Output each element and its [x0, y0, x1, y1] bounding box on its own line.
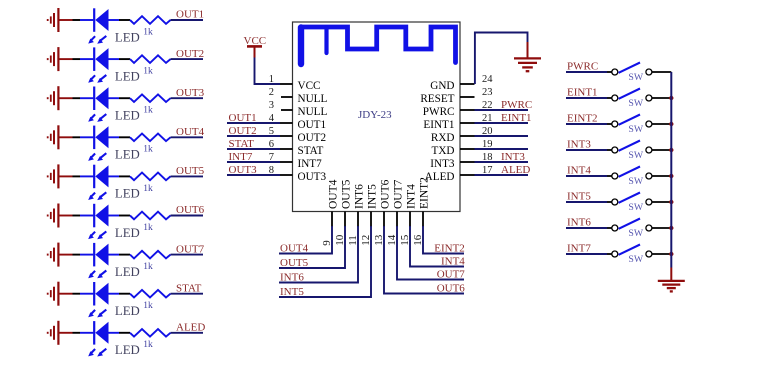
pin 7 INT7	[269, 152, 322, 170]
ground row 7	[48, 243, 59, 267]
wire resistor to net label OUT1	[171, 19, 204, 21]
svg-text:PWRC: PWRC	[423, 106, 455, 118]
antenna meander trace	[301, 27, 456, 64]
wire LED to resistor R2	[119, 58, 130, 60]
svg-text:1k: 1k	[143, 106, 153, 116]
wire net INT7 to switch SW8	[566, 253, 612, 255]
svg-text:OUT7: OUT7	[392, 179, 404, 209]
wire ground bus vertical	[670, 72, 672, 268]
svg-text:16: 16	[412, 234, 424, 246]
svg-text:PWRC: PWRC	[501, 99, 532, 111]
svg-text:EINT1: EINT1	[423, 119, 454, 131]
svg-text:LED: LED	[115, 304, 140, 318]
ground row 3	[48, 86, 59, 110]
svg-text:VCC: VCC	[298, 80, 321, 92]
ground row 8	[48, 282, 59, 306]
ground row 2	[48, 47, 59, 71]
wire net INT4 to switch SW5	[566, 175, 612, 177]
svg-text:OUT3: OUT3	[176, 87, 205, 99]
LED D6	[88, 204, 119, 239]
svg-text:LED: LED	[115, 226, 140, 240]
svg-text:SW: SW	[628, 98, 643, 109]
svg-text:INT5: INT5	[366, 184, 378, 209]
wire LED to resistor R7	[119, 254, 130, 256]
wire resistor to net label OUT3	[171, 97, 204, 99]
pin 21 EINT1	[423, 113, 492, 131]
svg-text:OUT1: OUT1	[298, 119, 327, 131]
pin 4 OUT1	[269, 113, 326, 131]
LED D7	[88, 243, 119, 278]
svg-text:1k: 1k	[143, 27, 153, 37]
svg-text:STAT: STAT	[298, 145, 324, 157]
resistor R2 1k	[130, 55, 171, 63]
resistor R6 1k	[130, 212, 171, 220]
wire switch SW1 to bus	[652, 71, 672, 73]
junction dot row 3	[669, 122, 673, 126]
svg-text:INT6: INT6	[280, 272, 304, 284]
svg-text:INT4: INT4	[441, 256, 465, 268]
wire LED to resistor R8	[119, 293, 130, 295]
svg-text:STAT: STAT	[229, 138, 255, 150]
wire net stub pin 17	[475, 174, 529, 176]
svg-text:14: 14	[386, 234, 398, 246]
svg-text:INT7: INT7	[298, 158, 323, 170]
svg-text:INT5: INT5	[567, 190, 591, 202]
switch SW6	[612, 193, 652, 206]
pin 8 OUT3	[269, 165, 327, 183]
svg-text:STAT: STAT	[176, 282, 202, 294]
svg-text:INT4: INT4	[405, 184, 417, 209]
svg-text:INT3: INT3	[567, 138, 591, 150]
svg-text:2: 2	[269, 87, 274, 98]
svg-text:EINT2: EINT2	[418, 177, 430, 209]
pin 17 ALED	[425, 165, 493, 183]
svg-text:LED: LED	[115, 265, 140, 279]
junction dot row 7	[669, 226, 673, 230]
pin 20 RXD	[431, 126, 493, 144]
wire net OUT1 to pin 4	[227, 122, 280, 124]
wire switch SW8 to bus	[652, 253, 672, 255]
pin 19 TXD	[432, 139, 493, 157]
svg-text:OUT1: OUT1	[176, 9, 204, 21]
wire net stub pin 21	[475, 122, 529, 124]
svg-text:OUT1: OUT1	[229, 112, 257, 124]
svg-text:OUT6: OUT6	[379, 179, 391, 209]
wire resistor to net label OUT2	[171, 58, 204, 60]
earth ground bottom right	[658, 268, 685, 292]
svg-text:INT3: INT3	[501, 151, 525, 163]
resistor R5 1k	[130, 173, 171, 181]
resistor R3 1k	[130, 94, 171, 102]
svg-text:1k: 1k	[143, 145, 153, 155]
ground row 5	[48, 164, 59, 188]
svg-text:LED: LED	[115, 109, 140, 123]
svg-text:OUT4: OUT4	[280, 243, 309, 255]
svg-text:INT6: INT6	[567, 216, 591, 228]
junction dot row 4	[669, 148, 673, 152]
LED D8	[88, 282, 119, 317]
pin 3 NULL	[269, 100, 328, 118]
svg-text:LED: LED	[115, 343, 140, 357]
wire pin 11 to net INT6	[279, 226, 358, 283]
pin 6 STAT	[269, 139, 324, 157]
wire net stub pin 22	[475, 109, 529, 111]
svg-text:INT3: INT3	[430, 158, 455, 170]
ground row 4	[48, 125, 59, 149]
svg-text:OUT2: OUT2	[298, 132, 327, 144]
svg-text:ALED: ALED	[501, 164, 530, 176]
svg-text:ALED: ALED	[176, 322, 205, 334]
svg-text:OUT5: OUT5	[340, 179, 352, 209]
svg-text:OUT4: OUT4	[327, 179, 339, 209]
wire switch SW5 to bus	[652, 175, 672, 177]
pin 13 OUT6	[373, 179, 392, 245]
svg-text:OUT6: OUT6	[176, 204, 205, 216]
LED D9	[88, 321, 119, 356]
wire net STAT to pin 6	[227, 148, 280, 150]
svg-text:OUT2: OUT2	[176, 48, 204, 60]
wire net stub pin 20	[475, 135, 529, 137]
resistor R4 1k	[130, 134, 171, 142]
LED D1	[88, 8, 119, 43]
svg-text:OUT4: OUT4	[176, 126, 205, 138]
switch SW5	[612, 167, 652, 180]
svg-text:1k: 1k	[143, 67, 153, 77]
wire net INT3 to switch SW4	[566, 149, 612, 151]
svg-text:23: 23	[482, 87, 493, 98]
wire net INT6 to switch SW7	[566, 227, 612, 229]
wire ground to LED D3	[58, 97, 93, 99]
wire pin 10 to net OUT5	[279, 226, 345, 268]
switch SW7	[612, 219, 652, 232]
wire ground to LED D7	[58, 254, 93, 256]
svg-text:RESET: RESET	[420, 93, 454, 105]
LED D5	[88, 165, 119, 200]
wire ground to LED D4	[58, 136, 93, 138]
pin 14 OUT7	[386, 179, 405, 245]
svg-text:INT6: INT6	[353, 184, 365, 209]
pin 1 VCC	[269, 74, 321, 92]
wire ground to LED D2	[58, 58, 93, 60]
wire pin 13 to net OUT6	[384, 226, 464, 294]
svg-text:PWRC: PWRC	[567, 60, 598, 72]
op IC U1 JDY-23 body	[293, 22, 461, 212]
svg-text:SW: SW	[628, 72, 643, 83]
svg-text:10: 10	[334, 234, 346, 246]
wire pin 9 to net OUT4	[279, 226, 332, 254]
pin 9 OUT4	[321, 179, 340, 245]
wire switch SW6 to bus	[652, 201, 672, 203]
wire net PWRC to switch SW1	[566, 71, 612, 73]
svg-text:JDY-23: JDY-23	[358, 109, 392, 121]
wire net EINT2 to switch SW3	[566, 123, 612, 125]
wire net OUT3 to pin 8	[227, 174, 280, 176]
svg-text:15: 15	[399, 234, 411, 246]
svg-text:SW: SW	[628, 150, 643, 161]
wire switch SW7 to bus	[652, 227, 672, 229]
svg-text:1k: 1k	[143, 340, 153, 350]
earth ground top right	[514, 42, 541, 71]
svg-text:LED: LED	[115, 187, 140, 201]
svg-text:1k: 1k	[143, 184, 153, 194]
svg-text:SW: SW	[628, 202, 643, 213]
wire net EINT1 to switch SW2	[566, 97, 612, 99]
ground row 1	[48, 8, 59, 32]
svg-text:OUT3: OUT3	[298, 171, 327, 183]
wire LED to resistor R9	[119, 332, 130, 334]
svg-text:13: 13	[373, 234, 385, 246]
pin 12 INT5	[360, 184, 379, 246]
svg-text:OUT2: OUT2	[229, 125, 257, 137]
wire net INT7 to pin 7	[227, 161, 280, 163]
svg-text:1k: 1k	[143, 223, 153, 233]
wire pin 14 to net OUT7	[397, 226, 464, 280]
wire resistor to net label OUT7	[171, 254, 204, 256]
pin 18 INT3	[430, 152, 492, 170]
svg-text:OUT7: OUT7	[437, 269, 466, 281]
svg-text:1k: 1k	[143, 262, 153, 272]
svg-text:TXD: TXD	[432, 145, 455, 157]
wire ground to LED D6	[58, 215, 93, 217]
svg-text:NULL: NULL	[298, 93, 328, 105]
resistor R9 1k	[130, 329, 171, 337]
junction dot row 8	[669, 252, 673, 256]
svg-text:INT5: INT5	[280, 286, 304, 298]
svg-text:1k: 1k	[143, 301, 153, 311]
wire resistor to net label OUT4	[171, 136, 204, 138]
svg-text:RXD: RXD	[431, 132, 455, 144]
pin 15 INT4	[399, 184, 418, 246]
svg-text:NULL: NULL	[298, 106, 328, 118]
wire ground to LED D1	[58, 19, 93, 21]
switch SW8	[612, 245, 652, 258]
pin 24 GND	[430, 74, 493, 92]
svg-text:LED: LED	[115, 148, 140, 162]
svg-text:OUT5: OUT5	[280, 257, 309, 269]
pin 16 EINT2	[412, 177, 431, 246]
LED D3	[88, 87, 119, 122]
switch SW3	[612, 115, 652, 128]
resistor R8 1k	[130, 290, 171, 298]
svg-text:OUT7: OUT7	[176, 243, 205, 255]
switch SW1	[612, 63, 652, 76]
svg-text:OUT6: OUT6	[437, 283, 466, 295]
svg-text:SW: SW	[628, 176, 643, 187]
wire pin 16 to net EINT2	[423, 226, 464, 254]
svg-text:INT7: INT7	[567, 242, 591, 254]
svg-text:24: 24	[482, 74, 493, 85]
junction dot row 6	[669, 200, 673, 204]
LED D4	[88, 126, 119, 161]
pin 5 OUT2	[269, 126, 326, 144]
wire VCC to pin 1	[255, 58, 281, 85]
pin 22 PWRC	[423, 100, 493, 118]
pin 2 NULL	[269, 87, 328, 105]
wire LED to resistor R4	[119, 136, 130, 138]
wire ground to LED D8	[58, 293, 93, 295]
wire net OUT2 to pin 5	[227, 135, 280, 137]
svg-text:12: 12	[360, 235, 372, 246]
svg-text:INT4: INT4	[567, 164, 591, 176]
resistor R1 1k	[130, 16, 171, 24]
pin 11 INT6	[347, 184, 366, 246]
svg-text:3: 3	[269, 100, 274, 111]
svg-text:OUT3: OUT3	[229, 164, 258, 176]
svg-text:GND: GND	[430, 80, 454, 92]
wire LED to resistor R1	[119, 19, 130, 21]
resistor R7 1k	[130, 251, 171, 259]
svg-text:EINT2: EINT2	[567, 112, 598, 124]
wire LED to resistor R3	[119, 97, 130, 99]
switch SW2	[612, 89, 652, 102]
power port VCC	[244, 35, 267, 58]
svg-text:LED: LED	[115, 69, 140, 83]
ground row 6	[48, 204, 59, 228]
wire resistor to net label ALED	[171, 332, 204, 334]
wire pin 12 to net INT5	[279, 226, 371, 297]
svg-text:9: 9	[321, 240, 333, 246]
svg-text:SW: SW	[628, 254, 643, 265]
wire net INT5 to switch SW6	[566, 201, 612, 203]
ground row 9	[48, 321, 59, 345]
junction dot row 5	[669, 174, 673, 178]
svg-text:EINT2: EINT2	[434, 243, 465, 255]
svg-text:11: 11	[347, 235, 359, 246]
wire resistor to net label OUT6	[171, 215, 204, 217]
LED D2	[88, 47, 119, 82]
wire pin 24 to earth ground	[475, 33, 528, 85]
wire resistor to net label OUT5	[171, 175, 204, 177]
wire LED to resistor R5	[119, 175, 130, 177]
wire net stub pin 18	[475, 161, 529, 163]
wire ground to LED D9	[58, 332, 93, 334]
pin 10 OUT5	[334, 179, 353, 245]
svg-text:OUT5: OUT5	[176, 165, 205, 177]
svg-text:SW: SW	[628, 124, 643, 135]
wire LED to resistor R6	[119, 215, 130, 217]
wire net stub pin 19	[475, 148, 529, 150]
svg-text:SW: SW	[628, 228, 643, 239]
wire resistor to net label STAT	[171, 293, 204, 295]
switch SW4	[612, 141, 652, 154]
wire switch SW2 to bus	[652, 97, 672, 99]
wire switch SW3 to bus	[652, 123, 672, 125]
svg-text:EINT1: EINT1	[501, 112, 532, 124]
wire switch SW4 to bus	[652, 149, 672, 151]
junction dot row 2	[669, 96, 673, 100]
wire ground to LED D5	[58, 175, 93, 177]
svg-text:INT7: INT7	[229, 151, 253, 163]
svg-text:EINT1: EINT1	[567, 86, 598, 98]
wire pin 15 to net INT4	[410, 226, 464, 267]
pin 23 RESET	[420, 87, 492, 105]
svg-text:LED: LED	[115, 30, 140, 44]
